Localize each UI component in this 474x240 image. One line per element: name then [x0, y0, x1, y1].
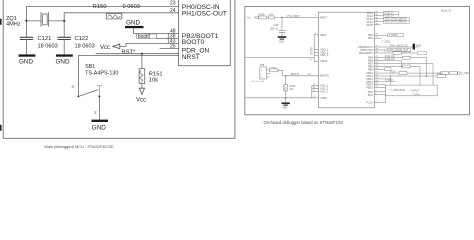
- wire PA14 + net label STM_JTCK_SWCLK: [374, 21, 383, 23]
- svg-text:7: 7: [315, 15, 317, 17]
- svg-text:GND: GND: [279, 41, 285, 44]
- node junction right: [63, 20, 65, 22]
- svg-text:STM_OSC32_IN: STM_OSC32_IN: [390, 44, 408, 47]
- RIGHT PAGE: [245, 7, 470, 125]
- svg-text:48: 48: [310, 54, 313, 56]
- switch actuator stub: [97, 86, 102, 96]
- polarized cap C1 black body: [413, 44, 415, 50]
- svg-text:VSSA: VSSA: [320, 96, 327, 100]
- wire PA12 + net label USB_D+: [374, 15, 383, 17]
- svg-text:R139: R139: [390, 72, 396, 74]
- page edge tick bottom: [0, 125, 2, 131]
- ground under C150: [281, 32, 283, 36]
- wire PA15 stub: [374, 24, 380, 26]
- wire PB13 + label: [374, 81, 395, 83]
- ground GND under SB1: [92, 120, 109, 122]
- switch SB1 right leg to GND: [98, 97, 100, 119]
- net label boot0: [137, 34, 157, 38]
- wire NRST net: [258, 16, 318, 18]
- svg-text:2: 2: [261, 73, 263, 75]
- svg-text:T_SWO: T_SWO: [385, 80, 393, 82]
- wire left vertical to OSC-IN: [25, 6, 27, 37]
- resistor R998: [269, 69, 278, 72]
- wire PB5 long + resistor R4: [374, 57, 426, 59]
- wire pin25 NRST: [160, 48, 179, 50]
- svg-text:18 0603: 18 0603: [38, 44, 58, 50]
- svg-text:On-board debugger based on STM: On-board debugger based on STM32F103: [264, 120, 344, 125]
- svg-text:BOOT0: BOOT0: [320, 73, 329, 77]
- svg-text:2: 2: [94, 110, 97, 115]
- wire PB14 stub: [374, 84, 385, 86]
- svg-text:SB1: SB1: [85, 64, 95, 70]
- svg-text:RST*: RST*: [121, 49, 136, 55]
- svg-text:Vcc: Vcc: [247, 16, 252, 19]
- wire pin24 OSC-OUT: [64, 12, 178, 14]
- svg-text:0 R998: 0 R998: [269, 67, 277, 69]
- svg-text:STM_JTCK_SWCLK: STM_JTCK_SWCLK: [385, 21, 408, 24]
- IC right pin names: [358, 11, 373, 105]
- svg-text:PD1: PD1: [368, 93, 374, 97]
- svg-text:GND: GND: [19, 59, 33, 66]
- svg-text:Q_USB: Q_USB: [461, 73, 469, 75]
- svg-text:18 0603: 18 0603: [75, 44, 95, 50]
- wire pin138: [157, 38, 179, 40]
- power Vcc arrow down: [139, 88, 144, 94]
- wire PD0 stub: [374, 91, 385, 93]
- wire pin143 PDR_ON: [120, 44, 179, 47]
- capacitor C122: [58, 37, 70, 39]
- IC U2 STM32F103 box: [319, 12, 375, 108]
- wire VDD_2 stub: [314, 51, 318, 53]
- svg-text:4: 4: [72, 84, 75, 89]
- page edge tick top: [0, 19, 2, 25]
- switch SB1 left leg: [77, 56, 79, 95]
- wire RST net: [96, 53, 179, 55]
- wire XP8 pin stubs: [267, 70, 271, 77]
- wire VDD bus vertical: [313, 35, 315, 61]
- svg-text:C122: C122: [75, 36, 89, 42]
- svg-text:100n 1u: 100n 1u: [270, 28, 279, 31]
- IC left pin names: [320, 15, 329, 100]
- svg-text:9: 9: [310, 60, 312, 62]
- svg-text:3: 3: [261, 77, 263, 79]
- ground GND under C122: [56, 54, 73, 56]
- node junction PB6/PB8: [401, 66, 402, 67]
- wire R151 vertical top: [141, 54, 143, 69]
- wire PB2 + net label + bead: [374, 46, 412, 48]
- svg-text:XP8: XP8: [260, 65, 265, 67]
- wire VBAT: [314, 34, 318, 36]
- svg-text:PB15: PB15: [366, 86, 373, 90]
- svg-text:23: 23: [170, 1, 176, 7]
- wire GND rail: [246, 97, 319, 99]
- node junction NRST: [281, 17, 282, 18]
- wire GND stub to pin48: [134, 28, 179, 34]
- node junction BOOT0: [285, 75, 286, 76]
- svg-text:T_NRST: T_NRST: [389, 34, 399, 37]
- wire right vertical to OSC-OUT: [63, 13, 65, 38]
- svg-text:BOOT0: BOOT0: [182, 39, 205, 46]
- wire PB3 + net label box: [374, 49, 387, 51]
- svg-text:0 0603: 0 0603: [123, 4, 140, 10]
- right page frame border: [245, 7, 470, 115]
- svg-text:GND: GND: [416, 45, 421, 47]
- svg-text:PB9: PB9: [368, 67, 373, 71]
- resistor R149: [259, 16, 267, 19]
- svg-text:M125_1A: M125_1A: [441, 10, 452, 13]
- connector XP8: [260, 67, 267, 79]
- svg-text:R149: R149: [259, 13, 265, 16]
- wire PA13 + net label STM_JTMS_SWDIO: [374, 18, 383, 20]
- svg-text:10k: 10k: [290, 88, 295, 91]
- MCU U1 box: [179, 0, 231, 66]
- resistor R1 (R150) body: [106, 14, 122, 19]
- wire C122 lower: [63, 40, 65, 55]
- wire PB15 stub: [374, 87, 385, 89]
- switch SB1 contacts: [77, 95, 79, 97]
- ground symbol on rail: [285, 98, 287, 103]
- svg-text:PB1: PB1: [368, 36, 373, 40]
- wire PB5 vertical drop: [425, 58, 427, 76]
- svg-text:C150: C150: [273, 24, 279, 27]
- wire VSS bus: [311, 86, 313, 98]
- ground GND under C121: [19, 54, 36, 56]
- svg-text:R150: R150: [93, 4, 108, 10]
- svg-text:VSS_3: VSS_3: [320, 89, 329, 93]
- wire VDDA stub: [314, 60, 318, 62]
- svg-text:36: 36: [310, 51, 313, 53]
- svg-text:VDDA: VDDA: [320, 59, 327, 63]
- svg-text:PH1/OSC-OUT: PH1/OSC-OUT: [182, 10, 227, 17]
- wire PB7 long: [374, 64, 433, 86]
- svg-text:R142 10k: R142 10k: [402, 51, 412, 53]
- svg-text:BOOT0: BOOT0: [291, 73, 300, 76]
- wire PB4 + resistor R3: [374, 52, 417, 54]
- svg-text:Vcc: Vcc: [100, 45, 110, 51]
- wire pin23 OSC-IN: [26, 5, 178, 7]
- svg-text:R133: R133: [437, 73, 443, 75]
- IC right pin numbers: [375, 11, 378, 103]
- capacitor C121: [20, 37, 32, 39]
- wire PB9 + label box: [374, 68, 384, 70]
- svg-text:C121: C121: [38, 36, 52, 42]
- svg-text:PC13: PC13: [366, 100, 373, 104]
- LEFT PAGE: [0, 0, 235, 149]
- crystal ZQ1: [41, 13, 49, 27]
- svg-text:T_JTDI: T_JTDI: [382, 40, 390, 43]
- svg-text:VBAT: VBAT: [320, 33, 327, 37]
- left page frame border: [3, 0, 235, 138]
- wire PB1 + net label: [374, 37, 381, 39]
- svg-text:NRST: NRST: [182, 54, 200, 61]
- svg-text:24: 24: [310, 48, 313, 50]
- svg-text:PA15: PA15: [367, 23, 374, 27]
- svg-text:DF_con_1x3: DF_con_1x3: [252, 81, 265, 83]
- capacitor C98: [269, 16, 275, 19]
- wire Vcc rail: [246, 57, 314, 59]
- svg-text:Main (debugged) MCU - STM32F40: Main (debugged) MCU - STM32F407ZE: [45, 144, 115, 149]
- wire BOOT0: [278, 70, 319, 76]
- svg-text:T_JTMS R138: T_JTMS R138: [390, 90, 406, 92]
- wire PB8 + resistor R5: [374, 66, 420, 85]
- node junction RST/R151: [141, 53, 143, 55]
- svg-text:NRST: NRST: [320, 15, 327, 19]
- svg-text:1: 1: [261, 70, 263, 72]
- wire PA11 + net label USB_D-: [374, 12, 383, 14]
- svg-text:PB4/JNRST: PB4/JNRST: [359, 51, 373, 55]
- svg-text:TS-A4PS-130: TS-A4PS-130: [85, 70, 118, 76]
- wire C121 lower: [25, 40, 27, 55]
- connector/group box JTAG: [386, 85, 438, 96]
- wire PB6 + jog down: [374, 61, 401, 67]
- svg-text:4MHz: 4MHz: [6, 22, 21, 28]
- wire PB12 stub: [374, 78, 391, 80]
- svg-text:R140 10k: R140 10k: [385, 56, 396, 58]
- wire PB11 long: [374, 75, 437, 77]
- wire PC13 stub: [374, 101, 385, 103]
- wire switch branch: [78, 55, 178, 57]
- wire PD1 stub: [374, 94, 385, 96]
- resistor R151 body: [139, 69, 145, 84]
- svg-text:GND: GND: [282, 107, 287, 109]
- resistor R104 pulldown: [285, 76, 287, 85]
- wire VDD_3 stub: [314, 54, 318, 56]
- capacitor C150: [281, 17, 283, 30]
- wire R151 bottom: [141, 84, 143, 89]
- wire PB10 long USB disconnect: [374, 72, 441, 74]
- node junction left: [25, 20, 27, 22]
- wire crystal horizontal: [26, 20, 64, 22]
- svg-text:C99: C99: [268, 13, 273, 16]
- svg-text:GND: GND: [56, 59, 70, 66]
- svg-text:R144 10k: R144 10k: [385, 59, 396, 61]
- svg-text:Vcc: Vcc: [136, 97, 146, 103]
- svg-text:boot0: boot0: [138, 34, 151, 40]
- svg-text:GND: GND: [92, 124, 106, 131]
- wire PB0 + net label T_NRST: [374, 34, 387, 36]
- node junction GND rail: [285, 97, 286, 98]
- svg-text:GND: GND: [126, 20, 140, 27]
- svg-text:10k: 10k: [149, 77, 158, 83]
- svg-text:VDD_3: VDD_3: [320, 53, 329, 57]
- wire VDD_1 stub: [314, 48, 318, 50]
